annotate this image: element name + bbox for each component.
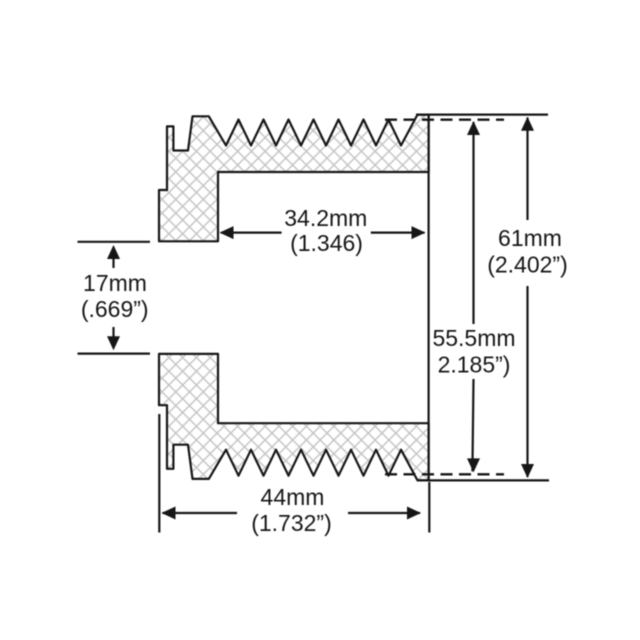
- 17mm down arrowhead: [107, 336, 120, 350]
- svg-text:17mm: 17mm: [83, 270, 147, 296]
- 17mm down arrow stub: [112, 327, 114, 348]
- 61mm dimension line lower segment: [526, 286, 528, 477]
- 55.5mm top arrowhead: [467, 121, 480, 135]
- 44mm dimension line left segment: [163, 512, 238, 514]
- svg-text:55.5mm: 55.5mm: [432, 325, 515, 351]
- bottom extension line (61mm lower reference): [417, 479, 549, 481]
- 34.2mm right arrowhead: [412, 226, 426, 239]
- 61mm dimension line upper segment: [526, 118, 528, 221]
- 44mm right arrowhead: [407, 507, 421, 520]
- 34.2mm dimension line right segment: [371, 232, 425, 234]
- 34.2mm left arrowhead: [220, 226, 234, 239]
- 55.5mm dimension line lower segment: [472, 379, 473, 471]
- 44mm left arrowhead: [162, 507, 176, 520]
- 61mm top arrowhead: [521, 117, 534, 131]
- 17mm up arrow stub: [112, 247, 114, 268]
- bottom dashed centre line (groove tip diameter): [385, 473, 504, 475]
- svg-text:(.669”): (.669”): [81, 296, 149, 322]
- pulley lower cross-section (hatched, mirrored): [159, 354, 429, 481]
- svg-text:2.185”): 2.185”): [438, 351, 511, 377]
- 44mm dimension line right segment: [348, 512, 420, 514]
- svg-text:(1.346): (1.346): [290, 230, 363, 256]
- svg-text:(1.732”): (1.732”): [251, 510, 332, 536]
- 34.2mm dimension line left segment: [221, 232, 282, 234]
- 17mm up arrowhead: [107, 245, 120, 259]
- 55.5mm bottom arrowhead: [467, 458, 480, 472]
- svg-text:44mm: 44mm: [261, 484, 325, 510]
- 61mm bottom arrowhead: [521, 464, 534, 478]
- pulley upper cross-section (hatched): [159, 115, 429, 242]
- 44mm left extension line: [158, 414, 160, 533]
- 17mm top extension line: [78, 241, 151, 243]
- top dashed centre line (groove tip diameter): [385, 118, 504, 120]
- 55.5mm dimension line upper segment: [472, 122, 474, 324]
- svg-text:34.2mm: 34.2mm: [284, 205, 367, 231]
- svg-text:(2.402”): (2.402”): [487, 252, 568, 278]
- top extension line (61mm upper reference): [416, 113, 548, 115]
- svg-text:61mm: 61mm: [498, 225, 562, 251]
- 44mm right extension line: [428, 482, 430, 533]
- 17mm bottom extension line: [78, 353, 151, 355]
- right edge of pulley body: [428, 115, 430, 481]
